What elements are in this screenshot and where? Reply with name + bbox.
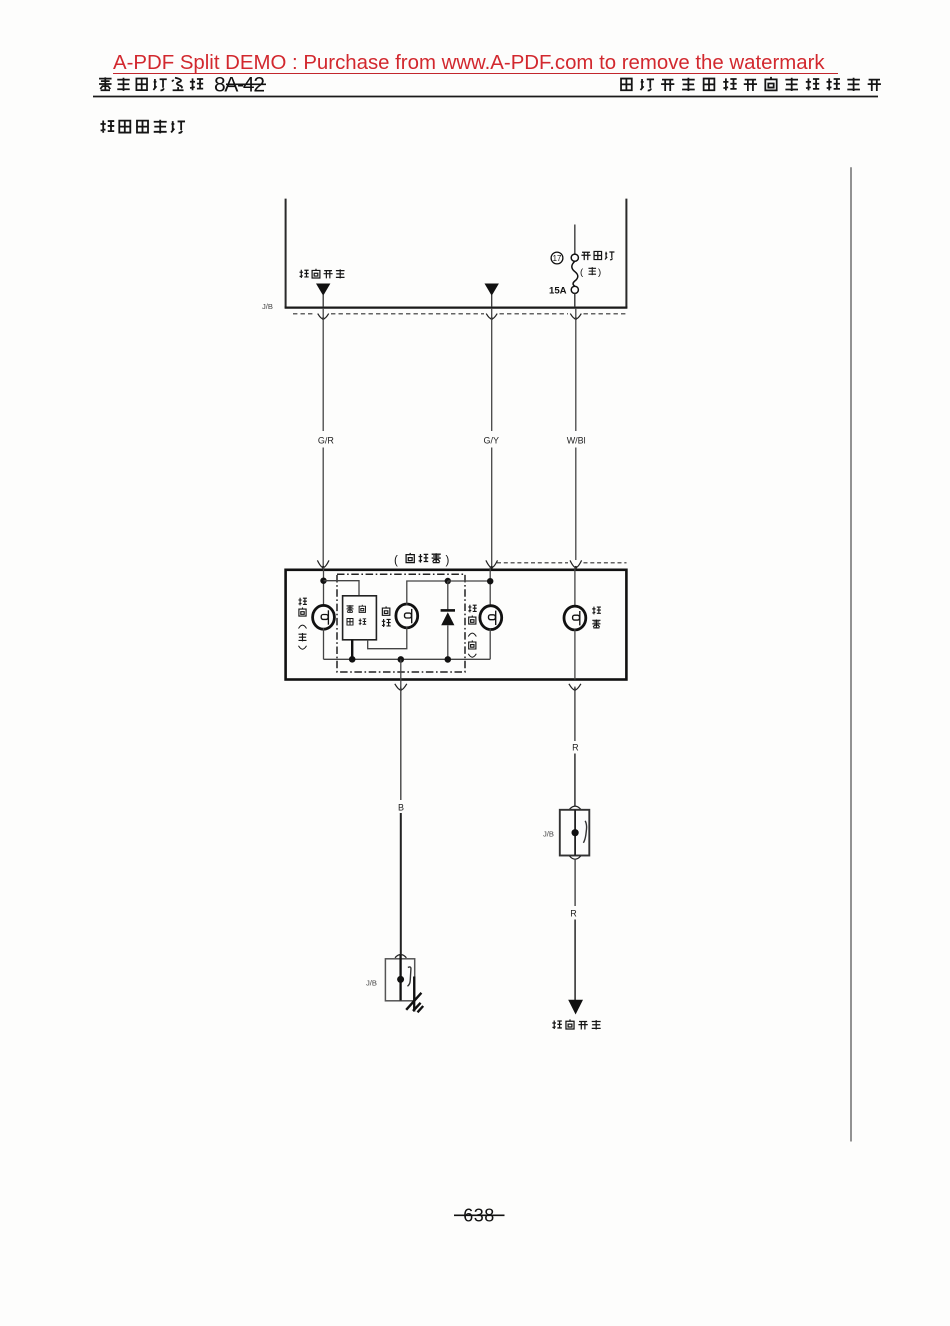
right page margin rule: [850, 167, 852, 1141]
hazard lamp bottom wire jog: [368, 627, 407, 649]
center tap wire leaving box: [400, 659, 402, 688]
lamp right bottom wire: [489, 628, 491, 659]
circled fuse number 17: [551, 252, 563, 264]
fuse bottom terminal: [571, 286, 578, 293]
turn signal indicator lamp (left): [313, 605, 335, 629]
wire B down: [400, 687, 402, 800]
node diode bus: [445, 656, 452, 663]
warning circuit box 警告电路: [343, 596, 377, 640]
connector crossing at box top (left wire): [317, 560, 329, 567]
svg-text:(: (: [580, 267, 584, 278]
contact curve right box: [583, 821, 586, 843]
svg-text:G/Y: G/Y: [483, 435, 499, 445]
fuse element (wavy): [572, 261, 578, 286]
svg-text:J/B: J/B: [262, 302, 273, 311]
svg-text:17: 17: [553, 254, 562, 263]
dashed connector line below J/B: [293, 313, 627, 315]
connector crossing at box top (right wire): [570, 560, 582, 567]
connector crossing at wire G/R: [318, 314, 329, 319]
connector crossing at wire W/Bl: [570, 314, 581, 319]
wire node to lamp right wire: [448, 580, 490, 582]
label 桁条 vertical: [592, 607, 601, 629]
turn signal indicator lamp (right) wire in: [489, 567, 491, 607]
wire R lower: [574, 859, 576, 907]
fuse top terminal: [571, 254, 578, 261]
connector crossing at right J/B bottom: [569, 856, 580, 859]
chassis ground: [406, 993, 423, 1013]
node at lamp right top: [487, 578, 493, 584]
node above diode: [445, 578, 451, 584]
label 前照灯（左）: [580, 251, 614, 278]
tail lamp indicator wire in: [574, 567, 576, 607]
contact curve: [407, 967, 411, 986]
label 转向（右） vertical: [468, 605, 477, 657]
wire G/Y vertical: [491, 308, 493, 431]
wire G/R vertical: [322, 308, 324, 431]
grounding junction block box: [385, 959, 414, 1001]
svg-text:(: (: [394, 555, 398, 567]
turn signal indicator lamp (right): [480, 606, 502, 630]
tail indicator lamp: [564, 606, 586, 630]
warning box to bus bold wire: [351, 640, 353, 660]
label (如配备): [394, 553, 450, 567]
connector arrow (left, from 组合开关): [316, 284, 330, 296]
svg-text:R: R: [572, 743, 579, 753]
wire through box: [574, 810, 576, 856]
connector crossing below box (left): [395, 684, 407, 690]
junction block J/B open-top box: [286, 199, 627, 308]
diode D: [447, 581, 449, 610]
svg-text:R: R: [570, 909, 577, 919]
wire R upper: [574, 687, 576, 741]
bold wire through box: [399, 955, 401, 1001]
combination meter box: [286, 570, 627, 680]
bus wire inside box: [324, 658, 491, 660]
connector arrow (middle): [485, 284, 499, 296]
svg-text:W/Bl: W/Bl: [567, 435, 586, 445]
dashed line above combo meter box: [497, 562, 627, 564]
connector crossing at wire G/Y: [486, 314, 497, 319]
header right title 昌河北斗星微型客车维修手册: [621, 77, 881, 91]
watermark red underline: [113, 73, 838, 75]
connector crossing below box (right): [569, 684, 581, 690]
wire from node to warning circuit box: [324, 581, 360, 596]
header left title 整车电气系统: [99, 77, 203, 91]
label 转向（左） vertical: [298, 598, 307, 649]
label 组合开关 (top): [299, 269, 344, 279]
fuse F 15A branch wire: [574, 225, 576, 255]
terminal node in box: [572, 829, 579, 836]
label 组合开关 (bottom): [552, 1019, 600, 1029]
node warning box bus: [349, 656, 356, 663]
watermark red text: [113, 52, 825, 75]
hazard indicator lamp: [396, 604, 418, 628]
node at lamp left top: [320, 578, 326, 584]
arrow to 组合开关: [568, 1000, 583, 1015]
svg-text:15A: 15A: [549, 286, 567, 297]
bold stub to ground: [413, 977, 415, 1012]
turn signal indicator lamp (left) wire in: [323, 567, 325, 606]
hazard unit dash-dot outline: [337, 574, 465, 672]
svg-text:B: B: [398, 803, 404, 813]
svg-text:G/R: G/R: [318, 435, 335, 445]
connector crossing at right J/B top: [569, 806, 580, 809]
svg-text:): ): [446, 555, 450, 567]
label 危险 vertical: [382, 606, 391, 627]
tail lamp bottom wire: [574, 629, 576, 680]
svg-text:J/B: J/B: [543, 830, 554, 839]
relay junction block box: [560, 810, 590, 856]
connector crossing at left J/B top: [395, 955, 406, 958]
hazard lamp top wire to node row: [407, 581, 448, 605]
svg-text:J/B: J/B: [366, 979, 377, 988]
connector crossing at box top (middle wire): [486, 560, 498, 567]
wire W/Bl vertical: [575, 308, 577, 431]
J/B bus bottom line: [285, 306, 628, 308]
node center tap: [398, 656, 405, 663]
header rule: [93, 96, 878, 98]
lamp left bottom wire: [323, 628, 325, 659]
svg-text:): ): [598, 267, 601, 278]
terminal node in box: [397, 976, 404, 983]
page section title 信号显示灯: [100, 120, 185, 134]
